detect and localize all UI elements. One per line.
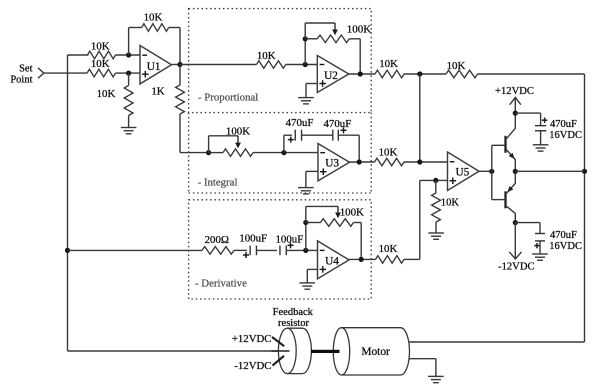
- svg-text:10K: 10K: [379, 58, 398, 70]
- svg-text:16VDC: 16VDC: [549, 241, 582, 252]
- svg-text:100uF: 100uF: [239, 233, 267, 245]
- svg-text:100uF: 100uF: [275, 234, 303, 246]
- svg-text:- Integral: - Integral: [198, 177, 238, 189]
- svg-text:470uF: 470uF: [550, 230, 577, 241]
- svg-text:10K: 10K: [144, 12, 163, 24]
- svg-text:-12VDC: -12VDC: [498, 262, 535, 273]
- svg-text:16VDC: 16VDC: [549, 130, 582, 141]
- svg-text:-12VDC: -12VDC: [234, 360, 271, 372]
- svg-text:Point: Point: [10, 74, 32, 85]
- svg-text:10K: 10K: [97, 88, 116, 100]
- svg-text:Feedback: Feedback: [273, 307, 314, 318]
- svg-text:100K: 100K: [340, 206, 364, 218]
- svg-text:- Proportional: - Proportional: [198, 91, 258, 103]
- svg-text:100K: 100K: [226, 126, 250, 138]
- svg-text:10K: 10K: [379, 243, 398, 255]
- svg-text:10K: 10K: [447, 60, 466, 72]
- svg-text:Set: Set: [19, 63, 33, 74]
- svg-text:10K: 10K: [91, 41, 110, 53]
- svg-text:U3: U3: [325, 158, 339, 170]
- svg-text:100K: 100K: [347, 24, 372, 36]
- svg-text:+12VDC: +12VDC: [232, 333, 272, 345]
- svg-text:Motor: Motor: [361, 346, 390, 358]
- svg-text:470uF: 470uF: [550, 119, 577, 130]
- svg-text:470uF: 470uF: [323, 118, 351, 130]
- svg-text:200Ω: 200Ω: [205, 234, 229, 246]
- svg-text:U5: U5: [455, 167, 469, 179]
- svg-text:10K: 10K: [441, 197, 460, 208]
- svg-text:10K: 10K: [379, 147, 398, 159]
- svg-text:U1: U1: [147, 61, 161, 73]
- svg-text:resistor: resistor: [278, 318, 309, 329]
- svg-text:+12VDC: +12VDC: [495, 86, 534, 97]
- svg-text:10K: 10K: [257, 50, 276, 62]
- svg-text:10K: 10K: [91, 58, 110, 70]
- svg-text:470uF: 470uF: [286, 117, 314, 129]
- svg-text:U2: U2: [324, 70, 338, 82]
- svg-text:1K: 1K: [151, 85, 164, 97]
- svg-text:U4: U4: [325, 255, 339, 267]
- svg-text:- Derivative: - Derivative: [195, 277, 247, 289]
